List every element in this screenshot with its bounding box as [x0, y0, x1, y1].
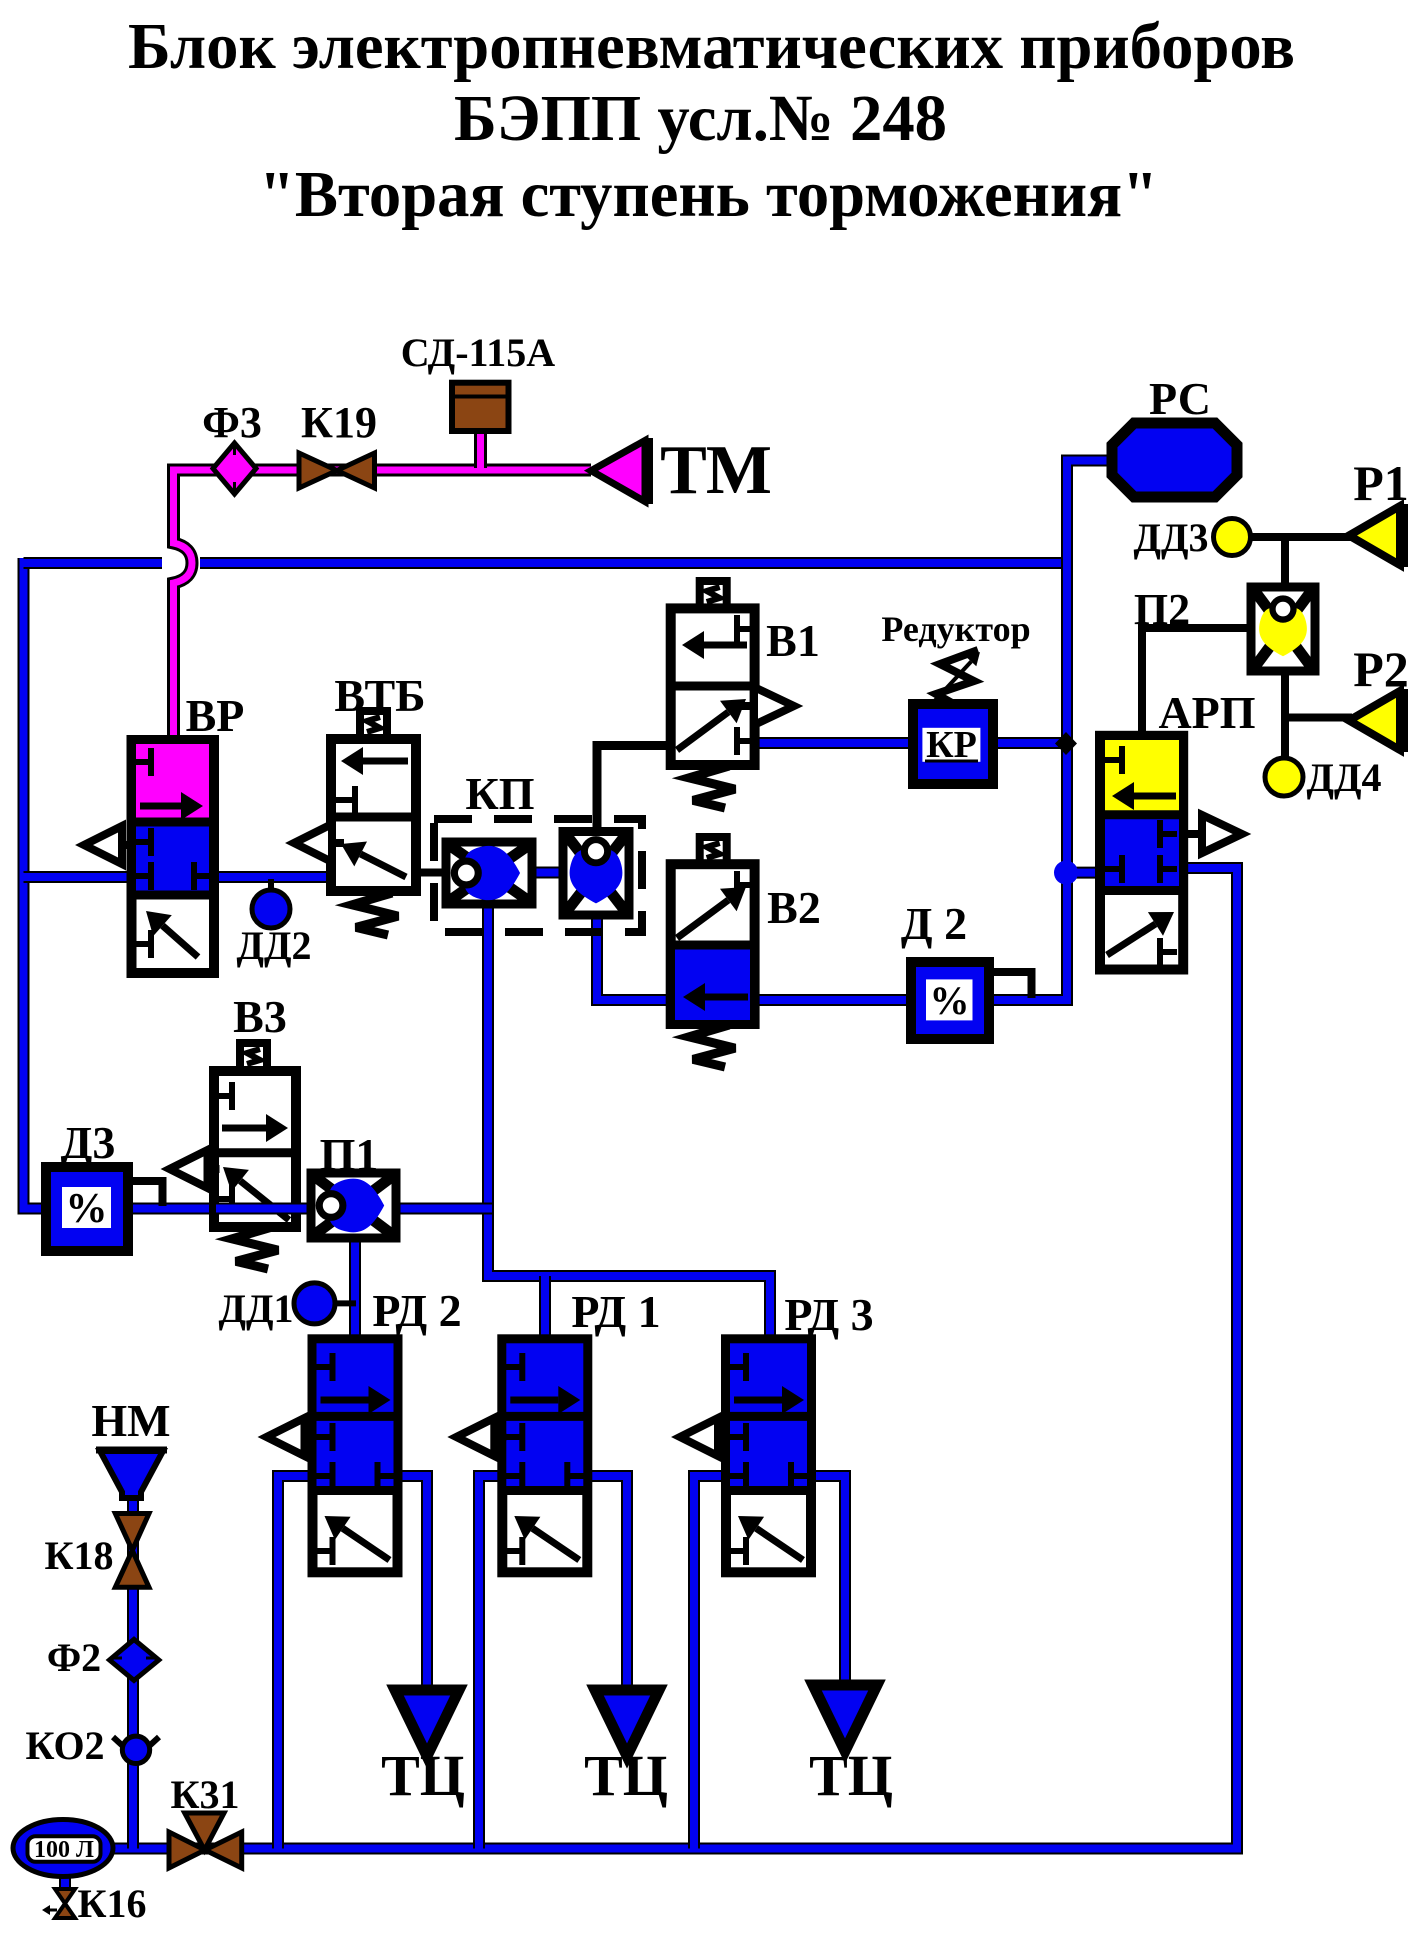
svg-text:ВР: ВР	[186, 690, 245, 741]
solenoid valve В3	[214, 1071, 296, 1227]
reservoir 100Л	[13, 1820, 113, 1877]
wire: СД-115А stem (magenta)	[474, 429, 487, 468]
wire: АРП output right riser + bottom bus	[104, 868, 1237, 1849]
solenoid valve В2	[671, 864, 755, 1024]
relay Д3	[46, 1167, 128, 1251]
pressure sensor СД-115А	[452, 383, 509, 431]
relay valve РД2	[313, 1339, 398, 1572]
filter Ф2	[110, 1639, 159, 1680]
reducer adjustment spring	[928, 650, 980, 708]
wire: КП internal link	[528, 867, 568, 879]
svg-text:К19: К19	[301, 398, 377, 447]
pressure switch ДД2	[252, 890, 290, 928]
wire: НМ column down to bottom bus	[127, 1496, 139, 1849]
pressure switch ДД4	[1265, 758, 1303, 796]
solenoid of В3	[240, 1043, 267, 1070]
solenoid of В2	[700, 837, 727, 864]
wire: П1 down to РД2	[349, 1236, 361, 1342]
valve К31	[169, 1813, 242, 1868]
node: КР line junction	[1055, 732, 1077, 755]
wire: Д3 side tab (black)	[130, 1181, 163, 1206]
wire: top bus left part (to hop gap)	[24, 557, 163, 569]
wire: РД1 left output to bottom bus	[479, 1476, 506, 1849]
svg-text:К16: К16	[77, 1881, 146, 1926]
wire: ВТБ output to КП (black)	[415, 869, 452, 877]
solenoid valve В1	[671, 608, 755, 765]
wire: ДД1 stem (black)	[332, 1300, 356, 1306]
wire: РД2 left output to bottom bus	[278, 1476, 316, 1849]
svg-text:100 Л: 100 Л	[34, 1837, 94, 1863]
exhaust of В1	[740, 687, 794, 725]
svg-text:ВТБ: ВТБ	[334, 670, 425, 721]
switch valve П2	[1251, 587, 1315, 671]
air distributor ВР	[131, 740, 214, 973]
svg-text:%: %	[930, 978, 970, 1023]
exhaust of РД2	[267, 1418, 317, 1456]
feed valve НМ	[96, 1450, 167, 1498]
wire: to ДД4 (black)	[1281, 718, 1289, 759]
svg-text:В1: В1	[766, 615, 820, 666]
КП left shuttle valve	[446, 842, 532, 904]
svg-text:ТЦ: ТЦ	[381, 1743, 465, 1808]
exhaust of ВР	[84, 826, 134, 864]
spring of ВТБ	[352, 893, 398, 935]
wire: Д3-П1 line over В3	[216, 1203, 311, 1215]
svg-text:БЭПП усл.№ 248: БЭПП усл.№ 248	[454, 82, 947, 155]
wire: Д2 side tab (black)	[985, 972, 1032, 998]
brake main ТМ horn	[591, 438, 653, 504]
svg-text:Ф2: Ф2	[47, 1635, 101, 1680]
wire: КП right valve down to В2 and Д2	[597, 912, 910, 1000]
svg-text:Д3: Д3	[61, 1117, 116, 1168]
svg-text:ТМ: ТМ	[660, 432, 772, 509]
svg-text:РД 1: РД 1	[571, 1286, 660, 1337]
svg-text:В3: В3	[233, 991, 287, 1042]
svg-text:РД 2: РД 2	[372, 1285, 461, 1336]
svg-text:Редуктор: Редуктор	[881, 609, 1030, 649]
exhaust of ВТБ	[294, 824, 344, 862]
wire: П2 to АРП top (black)	[1142, 628, 1253, 738]
svg-text:В2: В2	[767, 882, 821, 933]
svg-text:Р1: Р1	[1353, 455, 1409, 511]
valve К16	[42, 1889, 75, 1918]
wire: РД3 right output to ТЦ	[805, 1476, 845, 1687]
valve К18	[115, 1514, 149, 1588]
svg-text:Ф3: Ф3	[202, 398, 262, 447]
switch valve П1	[311, 1173, 396, 1238]
wire: top bus to РС riser	[200, 557, 1071, 569]
svg-text:"Вторая ступень торможения": "Вторая ступень торможения"	[259, 158, 1158, 231]
wire: junction to АРП input	[1062, 867, 1102, 879]
valve К19	[299, 453, 375, 488]
horn Р2	[1349, 689, 1408, 752]
spring of В2	[689, 1025, 735, 1067]
switching valve КП dashed box	[434, 819, 642, 932]
svg-text:Д 2: Д 2	[901, 898, 967, 949]
svg-text:НМ: НМ	[91, 1395, 170, 1446]
wire: П1 output to bus	[394, 1203, 492, 1215]
exhaust of РД1	[456, 1418, 506, 1456]
wire: РД3 left output to bottom bus	[694, 1476, 730, 1849]
svg-text:Р2: Р2	[1353, 641, 1409, 697]
svg-text:ДД4: ДД4	[1306, 755, 1381, 800]
solenoid of ВТБ	[360, 711, 387, 738]
wire: РД2 right output to ТЦ	[394, 1476, 427, 1692]
wire: В1 output to КР	[752, 737, 913, 749]
check valve КО2	[113, 1736, 159, 1763]
brake cylinder arrow ТЦ1	[395, 1690, 459, 1756]
brake cylinder arrow ТЦ3	[813, 1685, 877, 1751]
reservoir РС	[1112, 423, 1237, 497]
exhaust of РД3	[680, 1418, 730, 1456]
pressure switch ДД1	[294, 1283, 335, 1324]
relay valve РД1	[502, 1339, 587, 1572]
exhaust of В3	[170, 1150, 220, 1188]
svg-text:ТЦ: ТЦ	[809, 1743, 893, 1808]
wire: ДД3 to Р1 (black)	[1250, 533, 1352, 541]
svg-text:АРП: АРП	[1158, 687, 1255, 738]
svg-text:КО2: КО2	[25, 1723, 104, 1768]
svg-text:Блок электропневматических при: Блок электропневматических приборов	[128, 10, 1295, 83]
horn Р1	[1349, 504, 1408, 567]
pressure switch ДД3	[1214, 519, 1251, 556]
wire: left main riser / feed to Д3-В3-П1	[24, 558, 491, 1209]
svg-text:РС: РС	[1149, 373, 1211, 424]
spring of В1	[689, 766, 735, 808]
brake cylinder arrow ТЦ2	[595, 1690, 659, 1756]
svg-text:ДД2: ДД2	[236, 923, 311, 968]
relay valve РД3	[726, 1339, 811, 1572]
svg-text:СД-115А: СД-115А	[401, 330, 556, 375]
wire: КП left valve down + РД bus + РД3 feed	[488, 898, 770, 1342]
svg-text:%: %	[66, 1186, 108, 1232]
wire: П2 to Р2 (black)	[1285, 668, 1352, 718]
node: АРП input junction	[1054, 861, 1078, 885]
svg-text:ТЦ: ТЦ	[584, 1743, 668, 1808]
filter Ф3	[213, 443, 256, 494]
spring of В3	[232, 1227, 278, 1269]
auto mode regulator АРП	[1100, 736, 1183, 970]
relay Д2	[911, 962, 989, 1039]
svg-text:ДД1: ДД1	[218, 1286, 293, 1331]
wire: 100Л stem to К16	[59, 1873, 71, 1892]
svg-text:К18: К18	[44, 1533, 113, 1578]
svg-text:ДД3: ДД3	[1133, 515, 1208, 560]
solenoid of В1	[700, 581, 727, 608]
wire: КР output to junction	[993, 737, 1071, 749]
wire: ДД2 stem (black)	[268, 879, 274, 892]
svg-text:КП: КП	[465, 768, 534, 819]
wire: РД1 right output to ТЦ	[584, 1476, 627, 1692]
svg-text:П1: П1	[320, 1129, 379, 1180]
svg-text:П2: П2	[1134, 585, 1190, 634]
wire: РС riser down to Д2 output	[984, 461, 1113, 1001]
svg-text:К31: К31	[170, 1772, 239, 1817]
wire: main line to ВР and ВТБ	[24, 871, 335, 883]
wire: down to П2 (black)	[1281, 537, 1289, 590]
wire: brake pipe (magenta) with hop over bus	[174, 470, 592, 745]
solenoid valve ВТБ	[331, 739, 416, 891]
КП right shuttle valve	[563, 832, 629, 916]
pressure reducer КР	[913, 704, 993, 784]
exhaust of АРП	[1188, 815, 1242, 853]
wire: РД1 feed	[539, 1276, 551, 1342]
svg-text:РД 3: РД 3	[784, 1289, 873, 1340]
wire: КП right valve up to В1 (black)	[597, 746, 674, 834]
